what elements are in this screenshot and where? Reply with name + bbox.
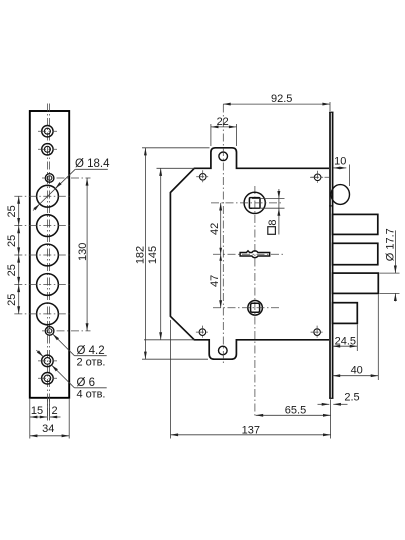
hole O18.4 #2 <box>37 215 59 237</box>
strip centerline A <box>46 104 48 420</box>
hole O18.4 #5 centerline <box>14 313 72 315</box>
hole O18.4 #4 <box>37 274 59 296</box>
boss base line <box>329 205 333 207</box>
dimension 2 <box>50 416 61 418</box>
dimension O17.7 line <box>394 230 396 273</box>
ext lines strip bottom <box>29 399 31 439</box>
svg-text:182: 182 <box>134 246 146 264</box>
hole O4.2 top centerline <box>42 177 91 179</box>
svg-text:Ø 6: Ø 6 <box>77 377 96 389</box>
hole O18.4 #1 <box>37 185 59 207</box>
deadbolt 3 <box>333 273 379 293</box>
svg-text:40: 40 <box>351 364 363 376</box>
svg-text:24.5: 24.5 <box>335 335 356 347</box>
dimension 24.5 <box>333 345 358 347</box>
screw hole top-right <box>314 174 321 181</box>
svg-text:65.5: 65.5 <box>285 405 306 417</box>
svg-text:8: 8 <box>267 219 279 225</box>
leader O6 <box>52 365 75 388</box>
svg-text:25: 25 <box>6 264 18 276</box>
faceplate edge left line <box>329 112 331 398</box>
screw hole bottom-left <box>199 329 206 336</box>
top tab hole <box>219 152 228 161</box>
bottom tab hole <box>219 346 228 355</box>
dimension 130 <box>86 178 88 331</box>
ext 24.5 <box>356 324 358 351</box>
hole O6 #3 <box>42 355 54 367</box>
ext 92.5 right <box>329 102 331 111</box>
svg-text:25: 25 <box>6 294 18 306</box>
svg-text:137: 137 <box>242 424 260 436</box>
ext 10 <box>348 165 350 187</box>
faceplate top cap <box>329 111 333 113</box>
svg-text:34: 34 <box>42 423 54 435</box>
hole O18.4 #5 <box>37 303 59 325</box>
hole O6 #4 centerline <box>38 377 57 379</box>
hole O18.4 #2 centerline <box>14 225 72 227</box>
hole O6 #1 <box>42 126 53 137</box>
hole O6 #2 <box>42 144 53 155</box>
dimension 145 <box>160 168 162 339</box>
svg-text:145: 145 <box>147 246 159 264</box>
hole O6 #3 centerline <box>38 360 57 362</box>
ext 137 left <box>170 320 172 439</box>
hole O4.2 top <box>45 174 54 183</box>
svg-text:47: 47 <box>209 275 221 287</box>
cylinder boss <box>331 185 349 205</box>
deadbolt 1 <box>333 214 378 234</box>
ext O17.7 <box>380 272 400 274</box>
deadbolt 2 <box>333 243 378 264</box>
lock body outline with tabs <box>170 148 329 359</box>
dimension 40 <box>333 375 379 377</box>
dimension sq8 line <box>278 189 280 235</box>
svg-text:42: 42 <box>209 223 221 235</box>
key slot <box>240 251 270 258</box>
ext 22 <box>210 124 212 146</box>
svg-text:2.5: 2.5 <box>344 392 359 404</box>
bottom square hole <box>248 301 263 316</box>
faceplate strip outline <box>30 111 69 398</box>
svg-text:15: 15 <box>31 405 43 417</box>
hole O18.4 #4 centerline <box>14 284 72 286</box>
ext 182 bottom <box>142 358 208 360</box>
dimension 182 <box>144 148 146 359</box>
ext 145 top <box>157 167 195 169</box>
svg-text:25: 25 <box>6 235 18 247</box>
hole O6 #4 <box>42 373 54 385</box>
follower square hole U1 <box>244 192 265 213</box>
hole O18.4 #3 <box>37 244 59 266</box>
svg-text:92.5: 92.5 <box>271 93 292 105</box>
hole O6 #1 centerline <box>38 130 57 132</box>
follower centerline h <box>211 202 283 204</box>
ext 137 right <box>330 399 332 438</box>
tab centerline <box>222 105 224 366</box>
svg-text:Ø 18.4: Ø 18.4 <box>75 158 110 170</box>
label sq8 square <box>268 227 276 235</box>
screw hole top-left <box>199 174 206 181</box>
dimension 34 <box>30 435 69 437</box>
hole O18.4 #3 centerline <box>14 254 72 256</box>
faceplate bottom cap <box>329 397 333 399</box>
dimension 2.5 <box>318 403 330 405</box>
hole O18.4 #1 centerline <box>14 195 72 197</box>
ext 182 top <box>142 147 210 149</box>
faceplate edge right line <box>332 112 334 398</box>
svg-text:Ø 4.2: Ø 4.2 <box>77 345 105 357</box>
dimension 137 <box>171 434 331 436</box>
ext 40 <box>377 294 379 380</box>
svg-text:25: 25 <box>6 205 18 217</box>
strip centerline B <box>49 104 51 420</box>
leader O18.4 <box>33 169 75 210</box>
hole O4.2 bottom centerline <box>42 330 91 332</box>
dimension 25 chain <box>18 196 20 314</box>
bottom follower centerline h <box>213 307 281 309</box>
dimension 92.5 <box>223 103 330 105</box>
svg-text:4 отв.: 4 отв. <box>77 388 106 400</box>
leader O4.2 <box>53 334 75 356</box>
latch bolt <box>333 303 358 324</box>
svg-text:130: 130 <box>77 243 89 261</box>
ext 145 bottom <box>144 339 194 341</box>
dimension 15 <box>30 416 48 418</box>
dimension 65.5 <box>256 414 331 416</box>
dimension 42-47 line <box>220 203 222 308</box>
hole O6 #2 centerline <box>38 148 57 150</box>
svg-text:Ø 17.7: Ø 17.7 <box>385 228 397 261</box>
dimension 22 <box>211 126 237 128</box>
svg-text:22: 22 <box>217 116 229 128</box>
screw hole bottom-right <box>314 329 321 336</box>
svg-text:10: 10 <box>334 155 346 167</box>
hole O4.2 bottom <box>45 327 54 336</box>
key slot centerline h <box>213 253 285 255</box>
ext sq8 <box>252 198 285 200</box>
svg-text:2: 2 <box>51 405 57 417</box>
follower centerline <box>254 186 256 417</box>
svg-text:2 отв.: 2 отв. <box>77 356 106 368</box>
dimension 10 <box>334 167 347 169</box>
